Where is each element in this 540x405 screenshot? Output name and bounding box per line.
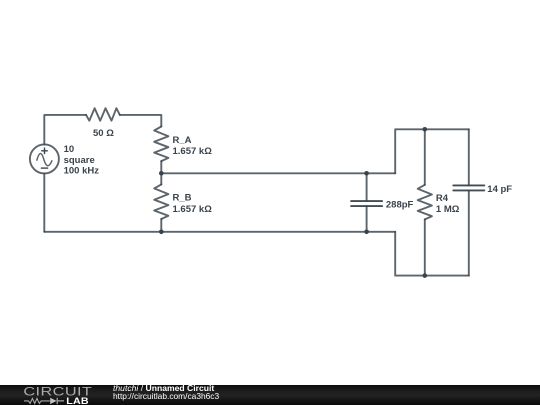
wire jog down to bottom-right rail [395, 232, 469, 276]
svg-text:50 Ω: 50 Ω [93, 128, 114, 139]
wire jog up to top-right rail [395, 129, 469, 173]
junction node at C1 bottom [364, 230, 369, 235]
junction node bottom at R_B [159, 230, 164, 235]
wire node A to R_B top lead [160, 173, 162, 184]
svg-text:14 pF: 14 pF [487, 184, 512, 195]
junction node at R4 top [423, 127, 428, 132]
junction node at R4 bottom [423, 273, 428, 278]
wire top-left from source to R1 and to node A column [44, 115, 86, 144]
capacitor C1 288pF bottom lead [366, 206, 368, 232]
svg-text:1.657 kΩ: 1.657 kΩ [173, 146, 213, 157]
CircuitLab logo resistor zigzag [24, 398, 50, 403]
resistor R_B zigzag [154, 184, 168, 219]
capacitor C1 288pF top lead [366, 173, 368, 201]
resistor R4 bottom lead [424, 219, 426, 275]
wire bottom rail [44, 231, 395, 233]
junction node A (R_A/R_B mid) [159, 171, 164, 176]
resistor R1 50 ohm zigzag [86, 108, 120, 121]
capacitor C2 14pF plates [453, 185, 484, 190]
CircuitLab logo diode [50, 398, 56, 404]
wire R_A bottom lead to node A [160, 161, 162, 173]
svg-text:10: 10 [64, 144, 75, 155]
wire mid rail node A to jog [161, 172, 395, 174]
voltage source V1 sine wave [37, 154, 52, 166]
svg-text:square: square [64, 155, 95, 166]
svg-text:R4: R4 [436, 193, 449, 204]
footer watermark bar [0, 385, 540, 405]
voltage source V1 circle [30, 144, 59, 173]
wire left vertical source bottom [43, 173, 45, 231]
capacitor C2 14pF bottom lead [468, 190, 470, 275]
footer credit line 1 [113, 383, 214, 393]
svg-text:R_A: R_A [173, 135, 192, 146]
svg-text:1.657 kΩ: 1.657 kΩ [173, 204, 213, 215]
resistor R_A zigzag [154, 127, 168, 162]
voltage source V1 plus sign [41, 148, 48, 155]
svg-text:1 MΩ: 1 MΩ [436, 204, 460, 215]
svg-text:288pF: 288pF [386, 199, 414, 210]
capacitor C1 288pF plates [351, 201, 382, 206]
resistor R4 zigzag [418, 185, 432, 220]
wire from R1 to R_A top corner [120, 115, 162, 127]
resistor R4 top lead [424, 129, 426, 185]
junction node at C1 top [364, 171, 369, 176]
wire R_B bottom lead [160, 219, 162, 232]
svg-text:R_B: R_B [173, 193, 192, 204]
voltage source V1 minus sign [41, 167, 48, 169]
footer credit line 2 [113, 391, 219, 401]
capacitor C2 14pF top lead [468, 129, 470, 185]
svg-text:100 kHz: 100 kHz [64, 166, 100, 177]
